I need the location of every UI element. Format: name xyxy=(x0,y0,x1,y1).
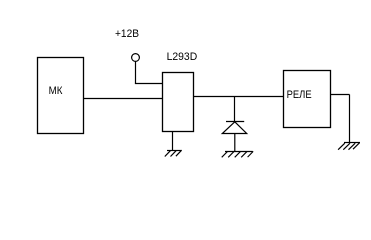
label МК xyxy=(49,85,63,97)
label РЕЛЕ xyxy=(287,89,312,101)
wire L293D output to relay xyxy=(194,96,284,98)
svg-text:РЕЛЕ: РЕЛЕ xyxy=(287,89,312,101)
block МК (microcontroller) xyxy=(38,58,84,134)
wire junction down to diode cathode xyxy=(234,97,236,122)
wire +12V terminal down xyxy=(135,61,137,84)
+12V supply terminal xyxy=(132,54,140,62)
label L293D xyxy=(167,51,198,63)
wire relay output down to ground xyxy=(349,95,351,143)
svg-text:L293D: L293D xyxy=(167,51,198,63)
wire relay output (horizontal) xyxy=(331,94,350,96)
wire L293D ground pin xyxy=(172,131,174,151)
net label +12В xyxy=(115,28,139,40)
ground (under L293D) xyxy=(165,150,182,156)
wire diode anode to ground xyxy=(234,134,236,152)
relay block РЕЛЕ xyxy=(284,71,331,128)
driver IC U1 L293D xyxy=(163,73,194,132)
wire МК output to L293D input pin xyxy=(84,98,162,100)
ground (right of relay) xyxy=(338,143,360,150)
diode VD triangle (anode below, cathode up) xyxy=(222,122,246,134)
svg-text:МК: МК xyxy=(49,85,63,97)
svg-text:+12В: +12В xyxy=(115,28,139,40)
ground (under diode) xyxy=(222,151,254,157)
wire +12V jog to L293D supply pin xyxy=(135,83,162,85)
diode VD (flyback), cathode bar xyxy=(226,121,244,123)
